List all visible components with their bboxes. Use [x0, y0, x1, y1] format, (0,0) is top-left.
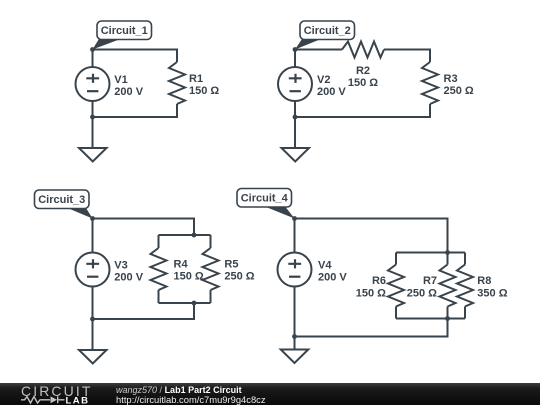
wire circuit1 bottom — [93, 104, 178, 117]
node circuit4 top — [292, 216, 297, 221]
svg-text:150 Ω: 150 Ω — [356, 287, 386, 299]
node circuit1 bottom — [90, 115, 95, 120]
svg-text:R1: R1 — [189, 73, 203, 85]
svg-text:R5: R5 — [224, 258, 238, 270]
wire circuit4 parallel top rail — [396, 252, 465, 254]
node dots — [90, 47, 450, 339]
svg-text:150 Ω: 150 Ω — [174, 271, 204, 283]
svg-text:250 Ω: 250 Ω — [224, 271, 254, 283]
svg-text:200 V: 200 V — [114, 86, 143, 98]
resistor R4 — [151, 235, 167, 303]
wire circuit4 parallel bottom rail — [396, 318, 465, 320]
resistor R6 — [388, 253, 404, 319]
resistor R1 — [169, 62, 185, 104]
node circuit4 parallel top — [445, 250, 450, 255]
wire circuit3 top — [93, 219, 195, 236]
voltage source V3 — [76, 219, 110, 320]
label Circuit_1 — [93, 21, 152, 50]
resistor R8 — [457, 253, 473, 319]
wire circuit3 parallel bottom rail — [159, 302, 211, 304]
node circuit1 top — [90, 47, 95, 52]
logo squiggle (resistor + diode) — [21, 396, 65, 403]
resistor R7 — [440, 253, 456, 319]
svg-text:Circuit_4: Circuit_4 — [241, 192, 289, 204]
wire circuit3 bottom — [93, 303, 195, 319]
wire circuit1 top — [93, 50, 178, 63]
ground circuit4 — [281, 337, 309, 364]
svg-text:LAB: LAB — [66, 395, 90, 405]
resistor R3 — [422, 62, 438, 104]
svg-text:V4: V4 — [318, 259, 332, 271]
svg-text:200 V: 200 V — [317, 86, 346, 98]
voltage source V2 — [278, 50, 312, 118]
label Circuit_2 — [295, 21, 355, 50]
svg-text:200 V: 200 V — [114, 272, 143, 284]
node circuit2 top — [293, 47, 298, 52]
ground circuit1 — [79, 117, 107, 162]
wire circuit4 top — [295, 219, 448, 253]
node circuit3 top — [90, 216, 95, 221]
wire circuit2 bottom — [295, 104, 430, 117]
svg-text:150 Ω: 150 Ω — [348, 77, 378, 89]
voltage source V4 — [278, 219, 312, 337]
svg-text:Circuit_2: Circuit_2 — [304, 25, 351, 37]
svg-text:250 Ω: 250 Ω — [407, 287, 437, 299]
svg-text:R7: R7 — [423, 275, 437, 287]
svg-text:R2: R2 — [356, 65, 370, 77]
label Circuit_4 — [237, 189, 295, 219]
svg-text:R6: R6 — [372, 275, 386, 287]
node circuit3 bottom — [90, 317, 95, 322]
resistor R2 — [342, 42, 384, 58]
svg-text:Circuit_1: Circuit_1 — [101, 25, 148, 37]
svg-text:V2: V2 — [317, 74, 330, 86]
voltage source V1 — [76, 50, 110, 118]
svg-text:Circuit_3: Circuit_3 — [38, 194, 85, 206]
wire circuit4 bottom — [295, 319, 448, 337]
wire circuit2 top-left — [295, 49, 342, 51]
node circuit2 bottom — [293, 115, 298, 120]
wire circuit3 parallel top rail — [159, 234, 211, 236]
svg-text:150 Ω: 150 Ω — [189, 85, 219, 97]
resistor R5 — [203, 235, 219, 303]
svg-text:200 V: 200 V — [318, 272, 347, 284]
node circuit4 parallel bottom — [445, 316, 450, 321]
ground circuit2 — [282, 117, 310, 162]
label Circuit_3 — [35, 190, 93, 219]
node circuit4 bottom — [292, 334, 297, 339]
node circuit3 parallel bottom — [192, 301, 197, 306]
wire circuit2 top-right — [384, 50, 430, 63]
svg-text:R4: R4 — [174, 258, 189, 270]
svg-text:R8: R8 — [477, 275, 491, 287]
svg-text:http://circuitlab.com/c7mu9r9g: http://circuitlab.com/c7mu9r9g4c8cz — [116, 394, 266, 405]
svg-text:V1: V1 — [114, 74, 127, 86]
svg-text:250 Ω: 250 Ω — [444, 85, 474, 97]
ground circuit3 — [79, 319, 107, 364]
node circuit3 parallel top — [192, 233, 197, 238]
svg-text:V3: V3 — [114, 259, 127, 271]
svg-text:R3: R3 — [444, 73, 458, 85]
svg-text:350 Ω: 350 Ω — [477, 287, 507, 299]
